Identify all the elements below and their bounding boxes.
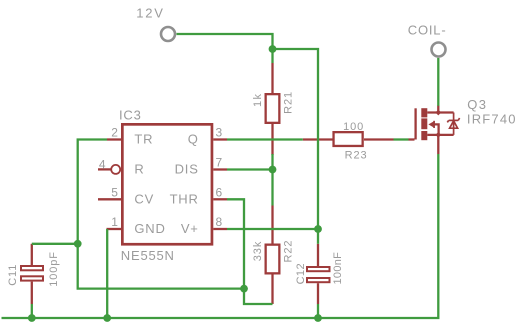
svg-text:2: 2 [111,125,118,139]
svg-text:TR: TR [134,132,153,147]
svg-text:12V: 12V [136,5,165,20]
svg-text:R23: R23 [345,150,368,162]
svg-text:Q: Q [188,132,199,147]
svg-text:NE555N: NE555N [121,248,175,263]
svg-text:8: 8 [216,215,223,229]
svg-text:33k: 33k [252,241,264,261]
svg-text:6: 6 [216,185,223,199]
svg-text:V+: V+ [181,221,199,236]
svg-text:100pF: 100pF [48,251,60,287]
svg-text:100nF: 100nF [332,252,344,285]
svg-text:1k: 1k [252,93,264,107]
svg-text:1: 1 [111,215,118,229]
svg-text:100: 100 [343,121,364,133]
svg-text:CV: CV [134,191,154,206]
svg-text:DIS: DIS [175,162,199,177]
svg-text:COIL-: COIL- [408,22,447,37]
svg-text:C11: C11 [7,264,19,286]
svg-text:R21: R21 [283,91,295,114]
svg-text:C12: C12 [295,263,307,284]
svg-text:THR: THR [170,191,199,206]
svg-text:4: 4 [99,157,106,171]
svg-text:R: R [134,162,144,177]
svg-text:7: 7 [216,155,223,169]
svg-text:Q3: Q3 [467,97,487,112]
svg-text:IC3: IC3 [119,107,142,122]
svg-text:IRF740: IRF740 [467,112,517,127]
svg-text:GND: GND [134,221,165,236]
svg-text:3: 3 [216,125,223,139]
svg-text:5: 5 [111,185,118,199]
svg-text:R22: R22 [283,240,295,263]
